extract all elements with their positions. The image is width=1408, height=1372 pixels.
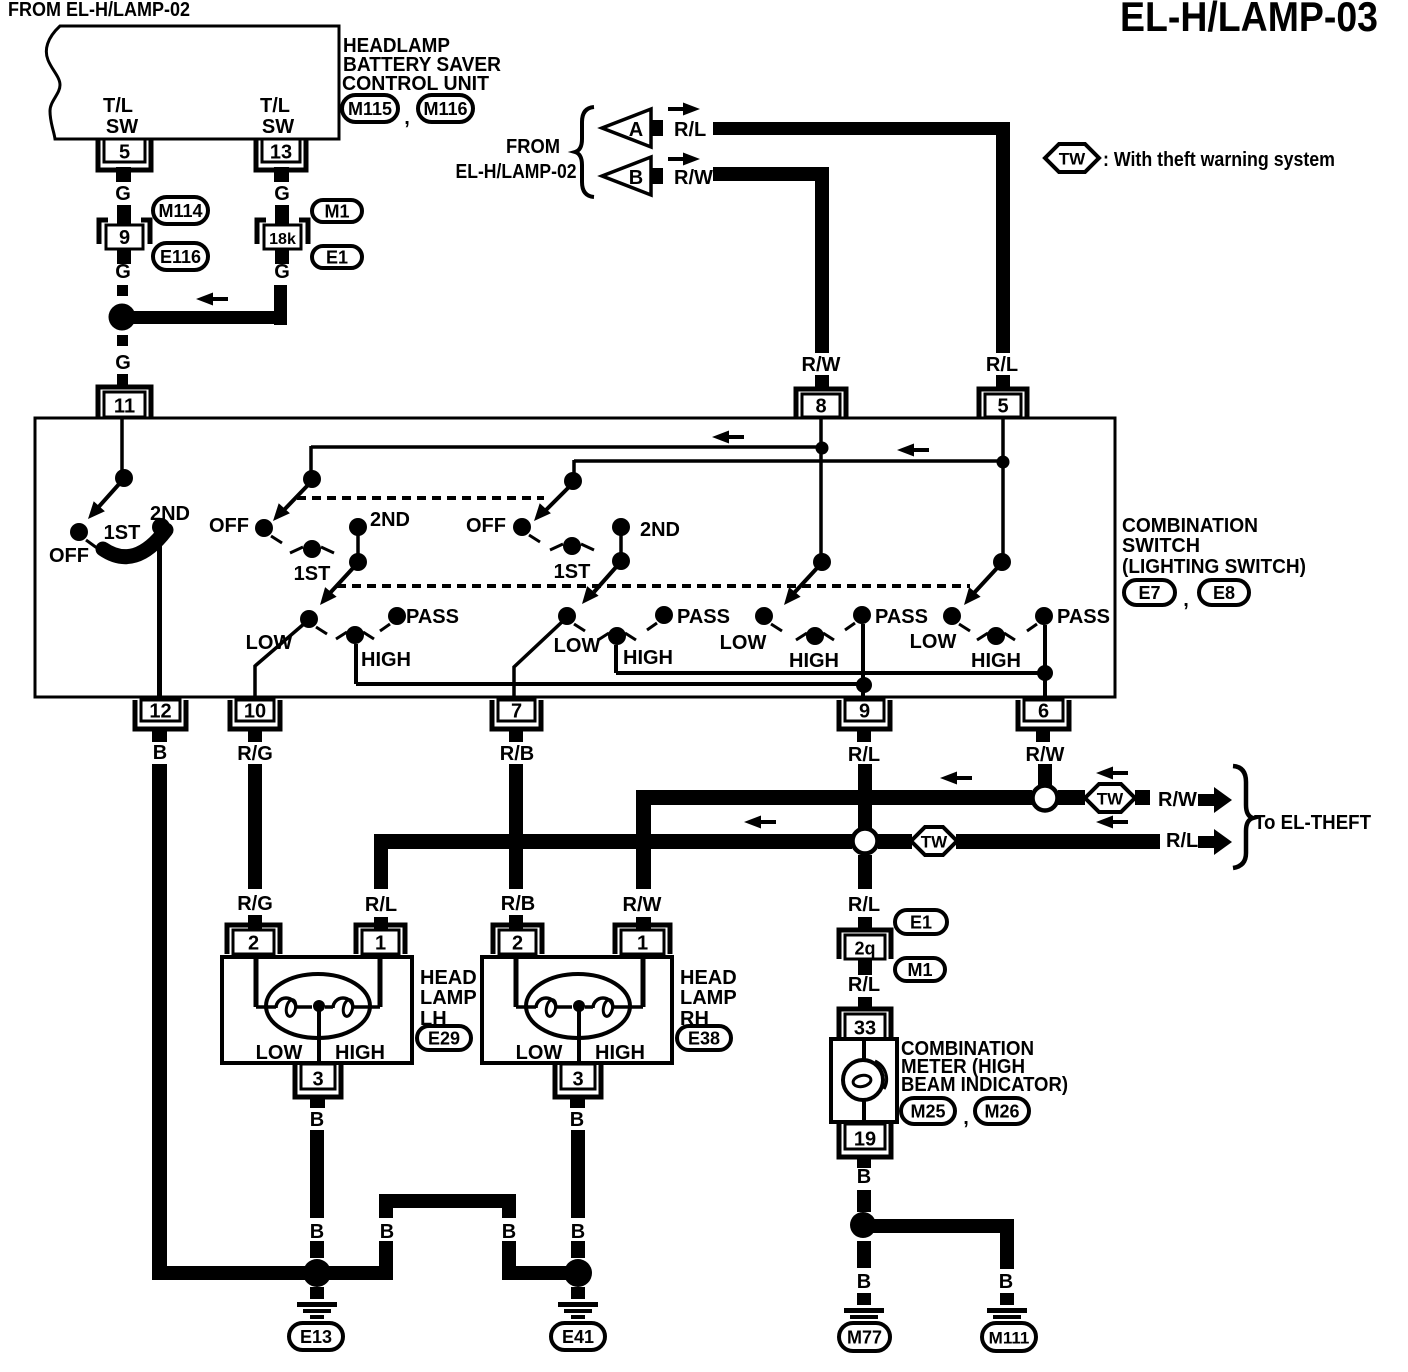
triangle B stub — [651, 168, 663, 184]
svg-text:G: G — [274, 261, 290, 283]
arrow right above R/W — [683, 153, 700, 166]
svg-text:2: 2 — [248, 933, 259, 955]
ground symbol M77 — [857, 1293, 871, 1305]
svg-text:LOW: LOW — [246, 632, 293, 654]
fat arrow R/L to EL-THEFT — [1198, 836, 1214, 848]
wire B jog right riser lower — [502, 1241, 516, 1280]
wire PASS to connector 6 — [1043, 625, 1047, 698]
contact PASS (group 2) — [388, 607, 406, 625]
wire R/W to TW — [1058, 790, 1085, 805]
contact HIGH (group 4) — [806, 627, 824, 645]
svg-text:G: G — [274, 183, 290, 205]
ground symbol E13 — [310, 1287, 324, 1299]
svg-text:HIGH: HIGH — [789, 650, 839, 672]
svg-text:PASS: PASS — [1057, 606, 1110, 628]
svg-text:12: 12 — [149, 701, 171, 723]
svg-text:B: B — [310, 1109, 324, 1131]
connector ref M114 — [153, 197, 208, 224]
svg-text:R/L: R/L — [848, 744, 880, 766]
svg-text:M116: M116 — [423, 99, 467, 119]
svg-text:13: 13 — [270, 142, 292, 164]
wire B jog top horizontal — [379, 1194, 516, 1208]
wire B jog left riser lower — [379, 1241, 393, 1280]
svg-text:,: , — [404, 107, 410, 129]
wire B horizontal to M111 — [863, 1219, 1014, 1233]
connector ref M25 — [901, 1098, 955, 1124]
ground symbol M111 — [1000, 1293, 1014, 1305]
svg-text:SWITCH: SWITCH — [1122, 535, 1200, 557]
switch pivot node (group 3 lower) — [612, 552, 630, 570]
svg-text:: With theft warning system: : With theft warning system — [1103, 149, 1335, 171]
svg-text:R/B: R/B — [500, 743, 534, 765]
svg-text:B: B — [380, 1221, 394, 1243]
wire R/W elbow down — [636, 790, 651, 889]
switch arm (group 4) — [794, 567, 818, 593]
switch pivot node (group 3) — [564, 472, 582, 490]
wire B stub below 19 — [857, 1155, 871, 1168]
switch arm (group 2 lower) — [330, 567, 354, 593]
connector ref M116 — [418, 95, 473, 122]
ground ref E41 — [551, 1323, 605, 1350]
svg-text:2ND: 2ND — [640, 519, 680, 541]
svg-text:R/L: R/L — [674, 119, 706, 141]
ground symbol E41 — [571, 1287, 585, 1299]
svg-text:HIGH: HIGH — [335, 1042, 385, 1064]
svg-text:A: A — [629, 119, 643, 141]
wire connector 5 into box — [1001, 419, 1005, 556]
svg-text:B: B — [570, 1109, 584, 1131]
wire R/L elbow down — [374, 834, 388, 889]
junction dot on upper bus — [816, 442, 829, 455]
switch arm (group 1) — [95, 483, 120, 511]
wire R/L stub — [996, 375, 1010, 388]
ground ref M111 — [982, 1323, 1036, 1351]
svg-text:HIGH: HIGH — [623, 647, 673, 669]
2ND position thick arc — [103, 530, 166, 557]
wire R/L stub below 2q — [858, 959, 872, 975]
wire G elbow down — [274, 285, 287, 325]
svg-text:LOW: LOW — [720, 632, 767, 654]
dashed link (upper bank) — [297, 496, 544, 500]
wire B stub below RH connector 3 — [570, 1096, 585, 1108]
headlamp RH — [482, 957, 672, 1063]
svg-text:HEAD: HEAD — [680, 967, 737, 989]
svg-text:1ST: 1ST — [554, 561, 591, 583]
connector 3 (headlamp RH) — [555, 1064, 601, 1097]
combination meter box — [831, 1039, 897, 1122]
switch arm (group 3 upper) — [545, 487, 569, 511]
svg-text:R/L: R/L — [848, 894, 880, 916]
wire G segment — [275, 205, 289, 224]
junction circle R/W (theft option) — [1033, 786, 1058, 811]
wire HIGH bus (lower) — [356, 682, 865, 686]
svg-text:9: 9 — [119, 227, 130, 249]
svg-text:M25: M25 — [910, 1102, 945, 1122]
svg-text:5: 5 — [119, 142, 130, 164]
wire R/W vertical from connector 6 — [1038, 764, 1052, 786]
svg-text:HIGH: HIGH — [595, 1042, 645, 1064]
svg-text:B: B — [629, 167, 643, 189]
svg-text:1ST: 1ST — [104, 522, 141, 544]
svg-text:8: 8 — [815, 396, 826, 418]
junction dot RH ground — [564, 1259, 592, 1287]
meter lamp lead upper — [862, 1039, 866, 1061]
wire R/G vertical — [248, 764, 262, 889]
wire connector 8 into box — [819, 419, 823, 556]
connector pin 5 of control unit — [98, 139, 151, 170]
wire R/L vertical from connector 9 — [858, 764, 872, 828]
svg-text:11: 11 — [114, 396, 135, 418]
junction dot on lower bus — [997, 456, 1010, 469]
connector 1 (headlamp LH) — [356, 925, 405, 954]
contact LOW (group 2) — [300, 610, 318, 628]
svg-text:3: 3 — [312, 1069, 323, 1091]
arrow right above R/L — [683, 103, 700, 116]
svg-text:R/W: R/W — [1026, 744, 1065, 766]
wire stub below 9 — [857, 727, 871, 742]
junction circle R/L (theft option) — [853, 829, 878, 854]
wire B riser to M111 ground — [1000, 1219, 1014, 1269]
wire R/L stub — [374, 917, 388, 929]
switch pivot node (group 4) — [813, 553, 831, 571]
connector 7 — [492, 700, 541, 729]
meter lamp lead lower — [862, 1100, 866, 1122]
svg-text:E29: E29 — [428, 1029, 460, 1049]
svg-text:PASS: PASS — [875, 606, 928, 628]
wire R/L stub — [858, 917, 872, 929]
svg-text:FROM: FROM — [506, 136, 560, 158]
wire R/L below junction circle — [858, 855, 872, 889]
connector ref E116 — [153, 243, 208, 270]
wire TW to EL-THEFT — [956, 834, 1160, 849]
svg-text:HIGH: HIGH — [361, 649, 411, 671]
connector ref E1 — [312, 246, 362, 268]
svg-text:R/W: R/W — [1158, 789, 1197, 811]
svg-text:PASS: PASS — [677, 606, 730, 628]
connector 11 (combination switch) — [98, 387, 151, 417]
svg-text:LAMP: LAMP — [680, 987, 737, 1009]
svg-text:33: 33 — [854, 1018, 876, 1040]
svg-text:B: B — [153, 742, 167, 764]
connector ref E1 — [895, 910, 947, 934]
dashed link (lower bank) — [337, 584, 970, 588]
svg-text:BEAM INDICATOR): BEAM INDICATOR) — [901, 1074, 1068, 1096]
TW legend hexagon — [1045, 144, 1099, 172]
connector ref M26 — [975, 1098, 1029, 1124]
svg-text:SW: SW — [106, 116, 138, 138]
link 2ND to lower pivot — [356, 527, 360, 562]
svg-text:M111: M111 — [989, 1329, 1030, 1348]
svg-text:3: 3 — [572, 1069, 583, 1091]
wire R/L horizontal (to headlamp LH) — [374, 834, 852, 849]
svg-text:R/L: R/L — [848, 974, 880, 996]
wire HIGH down (group 3) — [614, 645, 618, 673]
wire G segment — [117, 285, 128, 296]
svg-text:EL-H/LAMP-02: EL-H/LAMP-02 — [456, 161, 577, 183]
connector 12 — [135, 700, 186, 729]
arrow left on lower bus — [897, 444, 914, 457]
svg-text:R/B: R/B — [501, 893, 535, 915]
wire HIGH down (group 2) — [354, 644, 358, 684]
fat arrow R/W to EL-THEFT — [1198, 794, 1214, 806]
svg-text:E1: E1 — [326, 248, 348, 268]
wire R/W vertical drop — [815, 167, 829, 353]
wire stub below pin 13 — [274, 167, 289, 182]
connector ref E8 — [1199, 580, 1249, 605]
switch arm (group 2 upper) — [283, 485, 308, 511]
wire R/L stub above 33 — [858, 997, 872, 1010]
connector 19 (combination meter) — [839, 1124, 891, 1157]
svg-text:R/W: R/W — [674, 167, 713, 189]
svg-text:HIGH: HIGH — [971, 650, 1021, 672]
contact 1ST (group 3) — [563, 537, 581, 555]
svg-text:B: B — [310, 1221, 324, 1243]
connector 2q (E1/M1) — [839, 930, 891, 959]
wire G segment — [117, 335, 128, 346]
svg-text:M114: M114 — [158, 201, 202, 221]
connector 33 (combination meter) — [839, 1009, 891, 1039]
svg-text:18k: 18k — [269, 231, 296, 248]
svg-text:E38: E38 — [688, 1029, 720, 1049]
ground ref E13 — [289, 1323, 343, 1350]
junction dot LH ground — [303, 1259, 331, 1287]
svg-text:R/L: R/L — [365, 894, 397, 916]
wire R/B stub — [509, 915, 523, 929]
wire B jog left riser — [379, 1207, 393, 1218]
control unit U1 box (torn left edge) — [46, 26, 339, 139]
wire stub below 7 — [509, 727, 523, 742]
svg-text:10: 10 — [244, 701, 266, 723]
connector ref E29 — [417, 1026, 471, 1050]
wire TW to label — [1135, 790, 1150, 805]
svg-text:R/G: R/G — [237, 743, 273, 765]
arrow left above R/W end — [1096, 767, 1113, 780]
connector 5 (combination switch) — [979, 389, 1027, 417]
contact PASS (group 4) — [853, 606, 871, 624]
link 2ND to lower pivot — [619, 527, 623, 561]
svg-text:E41: E41 — [562, 1327, 594, 1347]
svg-text:E13: E13 — [300, 1327, 332, 1347]
wire B elbow to LH ground junction — [152, 1266, 316, 1280]
svg-text:E7: E7 — [1138, 583, 1160, 603]
svg-text:B: B — [502, 1221, 516, 1243]
arrow left on R/L wire — [744, 816, 761, 829]
svg-text:7: 7 — [511, 701, 522, 723]
svg-text:R/G: R/G — [237, 893, 273, 915]
connector 6 — [1018, 700, 1069, 729]
wire stub below pin 5 — [116, 167, 131, 182]
svg-text:LOW: LOW — [554, 635, 601, 657]
svg-text:,: , — [963, 1107, 969, 1129]
svg-text:M77: M77 — [847, 1328, 882, 1348]
switch arm (group 5) — [974, 567, 998, 593]
svg-text:(LIGHTING SWITCH): (LIGHTING SWITCH) — [1122, 556, 1306, 578]
wire R/W stub — [815, 375, 829, 388]
svg-text:B: B — [999, 1271, 1013, 1293]
svg-text:LOW: LOW — [256, 1042, 303, 1064]
connector pin 13 of control unit — [256, 139, 306, 170]
svg-text:EL-H/LAMP-03: EL-H/LAMP-03 — [1120, 0, 1378, 40]
junction dot (PASS group5 / HIGH bus) — [1037, 665, 1053, 681]
contact HIGH (group 3) — [608, 627, 626, 645]
wire stub below connector 18k — [275, 249, 289, 264]
svg-text:19: 19 — [854, 1129, 876, 1151]
connector ref M1 — [895, 958, 945, 981]
svg-text:T/L: T/L — [103, 95, 133, 117]
contact PASS (group 5) — [1035, 607, 1053, 625]
wire B segment LH — [310, 1241, 324, 1258]
contact HIGH (group 2) — [346, 626, 364, 644]
connector ref E38 — [677, 1026, 731, 1050]
wire R/L horizontal (A to switch) — [713, 122, 1010, 135]
connector ref M115 — [342, 95, 398, 122]
wire B jog LH to RH (left horizontal) — [316, 1266, 392, 1280]
triangle connector A — [602, 109, 651, 147]
wire stub below 10 — [248, 727, 262, 742]
contact 2ND (group 1) — [152, 518, 170, 536]
contact OFF (group 3) — [513, 518, 531, 536]
svg-text:LAMP: LAMP — [420, 987, 477, 1009]
svg-text:B: B — [857, 1271, 871, 1293]
contact LOW (group 4) — [755, 607, 773, 625]
svg-text:G: G — [115, 183, 131, 205]
switch arm (group 3 lower) — [594, 566, 617, 592]
connector 2 (headlamp RH) — [493, 925, 542, 954]
svg-text:G: G — [115, 261, 131, 283]
svg-text:R/W: R/W — [623, 894, 662, 916]
wire B vertical RH — [571, 1130, 585, 1218]
contact 2ND (group 2) — [349, 518, 367, 536]
svg-text:T/L: T/L — [260, 95, 290, 117]
svg-text:TW: TW — [1097, 790, 1124, 809]
svg-text:E116: E116 — [160, 247, 201, 267]
wire B from connector 12 (long vertical) — [152, 764, 167, 1270]
brace left of triangles — [575, 107, 594, 197]
contact HIGH (group 5) — [987, 627, 1005, 645]
wire stub below connector 9 — [117, 249, 131, 264]
svg-text:M26: M26 — [984, 1102, 1019, 1122]
wire R/L vertical drop — [996, 122, 1010, 353]
headlamp LH — [222, 957, 412, 1063]
triangle A stub — [651, 120, 663, 136]
arrow left on R/W wire — [940, 772, 957, 785]
svg-text:LOW: LOW — [910, 631, 957, 653]
svg-text:SW: SW — [262, 116, 294, 138]
wire from 2ND contact to connector 12 — [157, 530, 162, 698]
wire G segment — [117, 205, 131, 224]
svg-text:R/L: R/L — [1166, 830, 1198, 852]
bus wire from connector 8 (upper) — [311, 445, 822, 449]
contact OFF (group 1) — [70, 523, 88, 541]
svg-text:R/W: R/W — [802, 354, 841, 376]
connector 8 (combination switch) — [796, 389, 846, 417]
switch pivot node (group 2 lower) — [349, 553, 367, 571]
svg-text:To EL-THEFT: To EL-THEFT — [1254, 812, 1371, 834]
svg-text:2q: 2q — [854, 939, 875, 959]
wire B vertical LH — [310, 1130, 324, 1218]
connector 3 (headlamp LH) — [295, 1064, 341, 1097]
connector 1 (headlamp RH) — [615, 925, 670, 954]
svg-text:9: 9 — [859, 701, 870, 723]
wire B stub below LH connector 3 — [310, 1096, 325, 1108]
svg-text:1ST: 1ST — [294, 563, 331, 585]
wire G segment — [117, 374, 128, 386]
TW hexagon (R/W) — [1085, 784, 1135, 812]
junction dot meter ground — [850, 1212, 876, 1238]
wire B segment RH — [571, 1241, 585, 1258]
svg-text:TW: TW — [921, 833, 948, 852]
svg-text:E8: E8 — [1213, 583, 1235, 603]
wire R/W horizontal (to headlamp RH) — [636, 790, 1032, 805]
svg-text:R/L: R/L — [986, 354, 1018, 376]
svg-text:CONTROL UNIT: CONTROL UNIT — [342, 73, 489, 95]
svg-text:PASS: PASS — [406, 606, 459, 628]
junction dot (G wires) — [109, 304, 136, 331]
svg-text:OFF: OFF — [466, 515, 506, 537]
wire R/W horizontal (B to switch) — [713, 167, 829, 181]
svg-text:1: 1 — [375, 933, 386, 955]
svg-text:M1: M1 — [324, 202, 349, 222]
junction dot (PASS group4 / HIGH bus) — [856, 677, 872, 693]
connector ref M1 — [312, 200, 362, 222]
svg-text:E1: E1 — [910, 913, 932, 933]
svg-text:M1: M1 — [907, 960, 932, 980]
TW hexagon (R/L) — [911, 827, 957, 855]
switch pivot node (group 1) — [115, 469, 133, 487]
arrow left above R/L end — [1096, 816, 1113, 829]
svg-text:M115: M115 — [348, 99, 392, 119]
wire B jog right horizontal — [502, 1266, 578, 1280]
wire LOW to connector 7 — [514, 621, 563, 698]
wire B segment — [857, 1190, 871, 1212]
bus wire from connector 5 (lower) — [574, 459, 1003, 463]
svg-text:LOW: LOW — [516, 1042, 563, 1064]
contact PASS (group 3) — [655, 606, 673, 624]
wire G horizontal to junction — [128, 311, 287, 324]
arrow left on upper bus — [712, 431, 729, 444]
svg-text:B: B — [857, 1166, 871, 1188]
svg-text:OFF: OFF — [49, 545, 89, 567]
wire R/W stub — [636, 917, 651, 929]
svg-text:B: B — [571, 1221, 585, 1243]
wire feed from connector 11 — [120, 419, 124, 471]
svg-text:2ND: 2ND — [370, 509, 410, 531]
contact LOW (group 3) — [558, 607, 576, 625]
brace To EL-THEFT — [1233, 766, 1253, 868]
combination switch box — [35, 418, 1115, 697]
contact 2ND (group 3) — [612, 518, 630, 536]
wire HIGH bus (upper) — [616, 671, 1045, 675]
wire LOW to connector 10 — [255, 623, 305, 698]
connector ref E7 — [1124, 580, 1175, 605]
svg-text:TW: TW — [1059, 150, 1086, 169]
wire PASS to connector 9 — [861, 624, 865, 698]
svg-text:,: , — [1183, 589, 1189, 611]
connector 2 (headlamp LH) — [227, 925, 280, 954]
svg-text:COMBINATION: COMBINATION — [1122, 515, 1258, 537]
connector 10 — [230, 700, 280, 729]
contact LOW (group 5) — [943, 607, 961, 625]
svg-text:5: 5 — [997, 396, 1008, 418]
wire R/B vertical — [509, 764, 523, 889]
connector 9 (M114/E116) — [99, 220, 108, 244]
switch pivot node (group 2) — [303, 470, 321, 488]
svg-text:HEAD: HEAD — [420, 967, 477, 989]
wire B jog right riser — [502, 1207, 516, 1218]
connector 18k (M1/E1) — [257, 220, 266, 244]
contact OFF (group 2) — [255, 519, 273, 537]
svg-text:1: 1 — [637, 933, 648, 955]
